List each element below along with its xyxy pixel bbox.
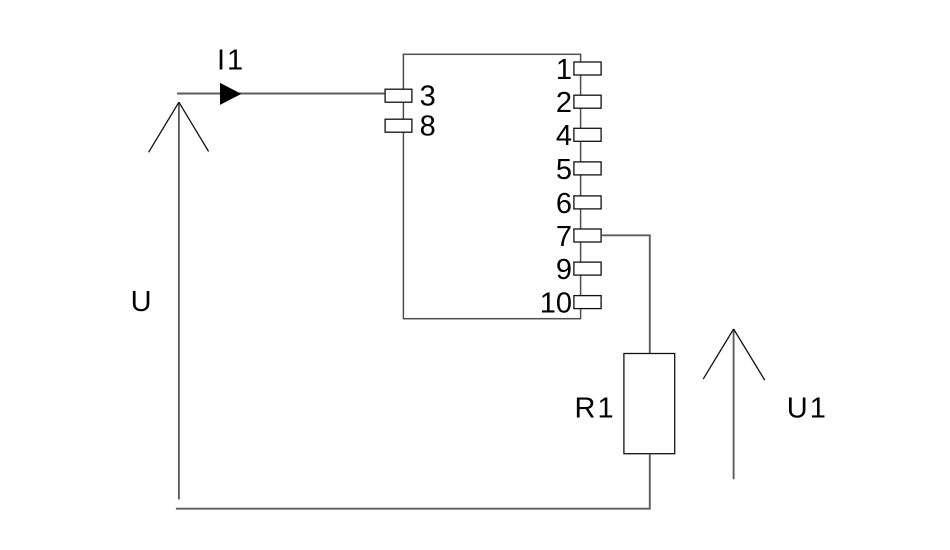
- wire: pin 7 to resistor R1: [601, 235, 650, 353]
- svg-text:R1: R1: [575, 393, 616, 425]
- wire: resistor R1 to bottom: [649, 454, 651, 509]
- bottom wire: [176, 508, 651, 510]
- svg-text:U: U: [131, 286, 152, 318]
- pin 8: [385, 111, 436, 143]
- pin 1: [556, 54, 601, 86]
- svg-text:U1: U1: [787, 393, 828, 425]
- pin 3: [385, 81, 436, 113]
- svg-text:6: 6: [556, 188, 572, 220]
- current arrow I1: [220, 83, 241, 105]
- pin 6: [556, 188, 601, 220]
- pin 2: [556, 87, 601, 119]
- pin 10: [540, 288, 601, 320]
- svg-text:7: 7: [556, 221, 572, 253]
- voltage arrow U1: [703, 329, 765, 479]
- svg-text:5: 5: [556, 154, 572, 186]
- resistor R1: [624, 354, 675, 454]
- svg-text:4: 4: [556, 120, 572, 152]
- svg-text:9: 9: [556, 254, 572, 286]
- pin 4: [556, 120, 601, 152]
- svg-text:I1: I1: [217, 44, 245, 76]
- IC box: [403, 54, 580, 318]
- wire: source U to pin 3: [177, 93, 385, 95]
- pin 7: [556, 221, 601, 253]
- svg-text:2: 2: [556, 87, 572, 119]
- pin 9: [556, 254, 601, 286]
- pin 5: [556, 154, 601, 186]
- svg-text:10: 10: [540, 288, 572, 320]
- svg-text:3: 3: [420, 81, 436, 113]
- voltage source arrow U: [149, 102, 209, 499]
- svg-text:8: 8: [420, 111, 436, 143]
- svg-text:1: 1: [556, 54, 572, 86]
